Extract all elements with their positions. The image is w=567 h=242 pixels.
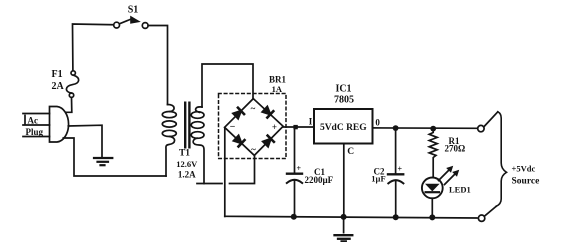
junction node (R1 top / output wire) <box>430 126 436 132</box>
svg-text:1µF: 1µF <box>371 174 385 184</box>
diode D4 (bottom-left) <box>231 133 247 149</box>
svg-text:~: ~ <box>251 104 256 114</box>
core <box>184 102 191 149</box>
svg-text:S1: S1 <box>128 5 139 16</box>
svg-text:T1: T1 <box>179 149 190 159</box>
wire: plug bottom to transformer primary bottom <box>63 138 166 176</box>
brace for +5Vdc source <box>496 112 506 207</box>
svg-text:0: 0 <box>375 118 380 128</box>
wire: plug middle to chassis ground <box>68 125 102 156</box>
dotted outline box <box>219 94 287 159</box>
svg-text:7805: 7805 <box>334 95 354 106</box>
svg-text:+: + <box>398 165 403 174</box>
junction node (C1 / rail) <box>291 214 297 220</box>
svg-text:BR1: BR1 <box>269 75 287 85</box>
svg-text:1A: 1A <box>272 84 283 94</box>
IC1 voltage regulator box <box>314 109 373 144</box>
svg-text:2200µF: 2200µF <box>305 175 334 185</box>
ground (earth, below IC common) <box>335 235 353 241</box>
ground rail (bottom) <box>225 216 477 218</box>
output terminal - (bottom) <box>478 215 484 221</box>
junction node (C2 / rail) <box>393 214 399 220</box>
svg-text:LED1: LED1 <box>449 185 471 195</box>
diode D3 (bottom-right) <box>261 133 277 149</box>
diamond <box>225 99 284 156</box>
svg-text:F1: F1 <box>52 69 63 80</box>
wire: IC1 output to + terminal <box>373 127 478 129</box>
diode D2 (top-right) <box>260 104 276 120</box>
wire: switch to transformer primary top <box>148 26 167 105</box>
ground (chassis, at plug) <box>94 158 112 165</box>
junction node (LED / rail) <box>429 214 435 220</box>
wire: secondary top to bridge AC top <box>202 64 253 107</box>
resistor R1 <box>429 129 437 178</box>
LED arrows <box>439 166 460 185</box>
svg-text:2A: 2A <box>52 81 65 92</box>
transformer T1 <box>162 102 204 184</box>
junction node (bridge+ / C1) <box>293 125 297 129</box>
svg-text:+: + <box>272 122 277 132</box>
wire: top rail from fuse corner to switch <box>73 24 114 71</box>
capacitor C1 <box>287 127 302 216</box>
svg-text:~: ~ <box>251 145 256 155</box>
wire: bridge plus vertex to IC1 input <box>283 126 314 128</box>
svg-text:–: – <box>229 121 235 131</box>
switch S1 <box>114 16 148 29</box>
svg-text:Ac: Ac <box>28 116 39 126</box>
terminal lead (top diagonal) <box>485 112 498 126</box>
svg-text:Plug: Plug <box>26 127 44 137</box>
junction node (IC common / rail) <box>341 214 347 220</box>
svg-text:IC1: IC1 <box>335 84 351 95</box>
primary winding <box>162 105 176 177</box>
wire: IC1 common down to ground rail <box>343 144 345 217</box>
output terminal + (top) <box>478 125 484 131</box>
capacitor C2 <box>388 128 403 217</box>
svg-text:C: C <box>347 147 354 157</box>
wire: bridge minus vertex down to ground rail <box>224 128 226 217</box>
AC plug <box>23 107 69 143</box>
bridge rectifier BR1 <box>219 94 287 159</box>
svg-text:+5Vdc: +5Vdc <box>512 164 536 174</box>
secondary winding <box>191 107 204 184</box>
diode D1 (top-left) <box>231 105 247 121</box>
svg-text:12.6V: 12.6V <box>176 159 198 169</box>
svg-text:Source: Source <box>512 177 540 187</box>
svg-text:5VdC REG: 5VdC REG <box>320 123 367 133</box>
wire: secondary bottom to bridge AC bottom (hops over minus wire) <box>197 183 222 185</box>
svg-text:I: I <box>309 117 313 127</box>
fuse F1 <box>66 71 79 113</box>
svg-text:+: + <box>297 164 302 173</box>
LED1 <box>422 166 459 217</box>
svg-text:1.2A: 1.2A <box>178 170 196 180</box>
terminal lead (bottom diagonal) <box>485 206 496 215</box>
junction node (C2 top / output wire) <box>393 125 399 131</box>
wire: rail to earth ground <box>343 217 345 233</box>
svg-text:270Ω: 270Ω <box>445 144 466 154</box>
